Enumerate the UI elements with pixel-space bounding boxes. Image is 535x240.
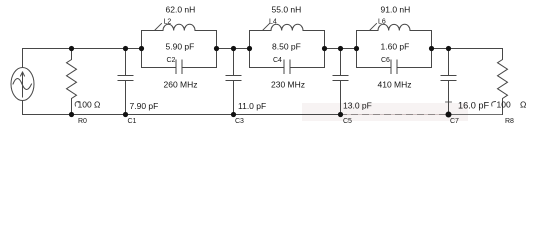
wire bottom rail right (449, 114, 503, 116)
svg-text:L4: L4 (269, 19, 277, 26)
inductor L6 (370, 24, 410, 31)
inductor L4 (263, 24, 303, 31)
capacitor C2 (176, 60, 182, 74)
svg-text:R0: R0 (78, 118, 87, 125)
tank 2 frame (L4/C4) (250, 31, 325, 68)
svg-text:100: 100 (497, 100, 511, 110)
svg-text:5.90 pF: 5.90 pF (166, 42, 195, 52)
svg-text:C7: C7 (450, 118, 459, 125)
svg-text:410 MHz: 410 MHz (378, 80, 412, 90)
svg-text:11.0 pF: 11.0 pF (238, 101, 266, 111)
svg-text:C2: C2 (167, 57, 176, 64)
svg-text:16.0 pF: 16.0 pF (458, 101, 490, 111)
svg-text:1.60 pF: 1.60 pF (381, 42, 410, 52)
svg-text:13.0 pF: 13.0 pF (343, 101, 372, 111)
wire rail tank2 to tank3 (325, 48, 357, 50)
wire rail tank3 to R8 (432, 48, 503, 50)
svg-text:55.0 nH: 55.0 nH (272, 5, 302, 15)
wire main rail source to tank1 (23, 48, 142, 50)
AC source V1 (11, 68, 34, 101)
wire source bottom lead (22, 101, 24, 115)
svg-text:7.90 pF: 7.90 pF (130, 101, 159, 111)
capacitor C3 (226, 49, 241, 115)
inductor L2 (155, 24, 195, 31)
capacitor C7 (441, 49, 456, 115)
jpeg artifact wash bottom right (302, 103, 468, 121)
svg-text:100 Ω: 100 Ω (78, 100, 101, 110)
wire bottom rail left (23, 114, 341, 116)
svg-text:C6: C6 (381, 57, 390, 64)
capacitor C6 (391, 60, 397, 74)
capacitor C4 (284, 60, 290, 74)
tank 3 frame (L6/C6) (357, 31, 432, 68)
capacitor C1 (118, 49, 133, 115)
svg-text:260 MHz: 260 MHz (164, 80, 198, 90)
svg-text:62.0 nH: 62.0 nH (166, 5, 196, 15)
resistor R0 (67, 49, 80, 115)
junction dots main rail (69, 46, 451, 51)
tank 1 frame (L2/C2) (142, 31, 217, 68)
svg-text:L6: L6 (378, 19, 386, 26)
svg-text:8.50 pF: 8.50 pF (272, 42, 301, 52)
wire source top lead (22, 49, 24, 68)
svg-text:91.0 nH: 91.0 nH (381, 5, 411, 15)
svg-text:C1: C1 (128, 118, 137, 125)
svg-text:230 MHz: 230 MHz (271, 80, 305, 90)
resistor R8 (492, 49, 508, 115)
svg-text:C4: C4 (273, 57, 282, 64)
capacitor C5 (333, 49, 348, 115)
C7 artifact tick (446, 99, 452, 107)
wire bottom rail faint segment (341, 114, 449, 116)
svg-text:R8: R8 (505, 118, 514, 125)
svg-text:L2: L2 (164, 19, 172, 26)
wire rail tank1 to tank2 (217, 48, 250, 50)
svg-text:Ω: Ω (520, 100, 526, 110)
svg-text:C3: C3 (235, 118, 244, 125)
junction dots bottom rail (69, 112, 452, 118)
svg-text:C5: C5 (343, 118, 352, 125)
